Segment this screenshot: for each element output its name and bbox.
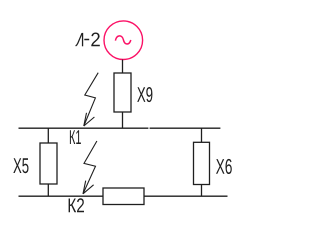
label X5 [13,158,28,173]
label X9 [137,87,152,102]
label К2 [69,198,84,212]
generator source Л-2 circle [104,21,143,60]
reactance X6 [194,142,210,184]
label X6 [216,159,232,174]
sine wave inside source [115,36,130,44]
wire X9 to bus K1 [122,112,124,128]
bus K2 (left segment) [19,195,104,197]
fault arrow at K2 [83,141,97,194]
reactance X9 [114,73,131,112]
fault arrow at K1 [84,73,98,126]
wire source to X9 [122,60,124,73]
bus K1 (right segment) [150,127,221,129]
bus K1 (left segment) [19,127,149,129]
resistor element on bus K2 [103,188,144,205]
label К1 [70,130,81,144]
reactance X5 [40,143,57,184]
wire bus K1 to X6 [201,128,203,142]
wire bus K1 to X5 [47,128,49,143]
wire X5 to bus K2 [47,184,49,196]
bus K2 (right segment) [144,195,228,197]
label Л-2 [76,33,100,47]
wire X6 to bus K2 [201,185,203,197]
